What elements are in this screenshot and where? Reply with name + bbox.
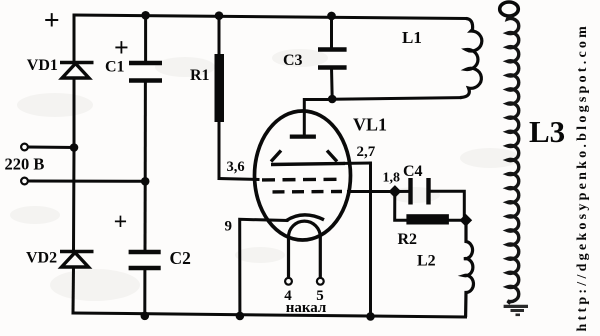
- pin 4 terminal: [285, 278, 292, 285]
- junction node 220V/VD: [70, 143, 79, 152]
- wire C3 to anode node: [330, 68, 334, 100]
- pin 5 terminal: [317, 278, 324, 285]
- svg-text:C3: C3: [283, 52, 303, 69]
- 220V terminal 1: [21, 144, 28, 151]
- svg-text:VD2: VD2: [26, 250, 57, 267]
- svg-text:+: +: [44, 6, 60, 37]
- wire 220V node to VD2: [72, 148, 76, 252]
- wire top rail to R1: [218, 16, 221, 54]
- inductor L2: [464, 221, 473, 318]
- resistor R1: [215, 54, 225, 122]
- svg-text:L2: L2: [417, 253, 436, 270]
- diode VD2: [60, 252, 94, 268]
- svg-text:9: 9: [225, 219, 233, 235]
- wire top rail: [74, 15, 466, 19]
- junction node cathode/bottom rail: [236, 312, 245, 321]
- wire pin 1,8 stub: [349, 190, 395, 193]
- junction node at C1/top rail: [141, 11, 150, 20]
- wire bottom rail: [73, 313, 466, 317]
- tube VL1 grid row 1 (pin 3,6): [262, 178, 338, 182]
- svg-text:R2: R2: [398, 231, 418, 248]
- inductor L3: [508, 16, 519, 304]
- tube VL1 envelope: [255, 111, 351, 240]
- wire VD2 to bottom rail: [72, 268, 76, 314]
- svg-text:VD1: VD1: [27, 57, 58, 74]
- junction node at anode/C3/L1: [328, 95, 337, 104]
- tube VL1 grid row 2 (pin 1,8): [273, 190, 343, 194]
- diode VD1: [60, 63, 94, 79]
- svg-text:+: +: [114, 210, 128, 236]
- svg-text:1,8: 1,8: [383, 171, 401, 186]
- wire anode lead: [304, 100, 332, 137]
- wire 220V terminal 1 lead: [28, 146, 74, 150]
- svg-text:http://dgekosypenko.blogspot.c: http://dgekosypenko.blogspot.com: [575, 23, 590, 332]
- wire cathode lead pin 9: [240, 219, 287, 315]
- capacitor C3: [318, 50, 347, 68]
- wire grid lead pin 3,6: [219, 179, 258, 180]
- svg-text:накал: накал: [286, 300, 327, 316]
- junction node at R1/top rail: [215, 11, 224, 20]
- svg-text:C4: C4: [403, 163, 423, 180]
- tube VL1 heater: [289, 221, 321, 278]
- wire 1,8 node down to R2: [395, 192, 406, 221]
- scan smudges: [10, 49, 520, 301]
- svg-text:220 В: 220 В: [5, 155, 45, 174]
- capacitor C2: [129, 252, 161, 268]
- svg-text:R1: R1: [190, 67, 210, 84]
- wire R1 to grid corner: [218, 122, 221, 179]
- junction node 1,8: [389, 185, 402, 198]
- wire top rail to C1: [144, 15, 147, 62]
- wire C1 to 220V line2 node: [144, 81, 147, 182]
- svg-text:L3: L3: [529, 114, 565, 149]
- svg-text:VL1: VL1: [353, 115, 387, 135]
- svg-text:3,6: 3,6: [227, 159, 245, 175]
- resistor R2: [406, 214, 449, 224]
- svg-text:L1: L1: [402, 28, 422, 47]
- capacitor C4: [411, 178, 429, 205]
- tube VL1 beam plates (pin 2,7): [271, 151, 345, 165]
- ground: [504, 306, 528, 314]
- wire pin 2,7 down to bottom rail: [369, 163, 372, 316]
- wire line2 node to C2: [144, 181, 147, 251]
- junction node R2/C4/L2: [459, 214, 472, 227]
- 220V terminal 2: [21, 178, 28, 185]
- junction node 2,7/bottom rail: [366, 312, 375, 321]
- junction node 220V/C1C2: [141, 177, 150, 186]
- junction node C2/bottom rail: [141, 312, 150, 321]
- svg-text:2,7: 2,7: [357, 144, 376, 160]
- wire L1 bottom return: [334, 98, 461, 100]
- inductor L3 top terminal: [500, 2, 519, 16]
- wire 1,8 node to C4: [395, 190, 410, 193]
- wire left branch upper (top rail to VD1): [73, 15, 76, 62]
- wire R2 to L2 node: [449, 219, 465, 222]
- junction node at C3/top rail: [327, 12, 336, 21]
- capacitor C1: [129, 63, 162, 81]
- wire top rail to C3: [330, 16, 333, 50]
- wire 220V terminal 2 lead: [28, 180, 145, 183]
- inductor L1: [460, 19, 482, 98]
- tube VL1 cathode: [286, 215, 324, 221]
- wire C4 to right corner: [429, 191, 464, 218]
- svg-text:C2: C2: [170, 248, 191, 268]
- tube VL1 anode: [290, 135, 316, 139]
- wire C2 to bottom rail: [143, 269, 146, 316]
- wire pin 2,7 stub: [345, 162, 371, 165]
- svg-text:+: +: [114, 33, 129, 62]
- wire VD1 to 220V node: [73, 78, 76, 148]
